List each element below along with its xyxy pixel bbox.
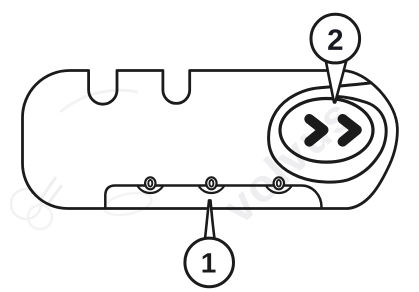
watermark overlay bbox=[11, 88, 363, 234]
dial 1 value 0 bbox=[148, 180, 152, 187]
oval button bbox=[280, 99, 373, 163]
chevron right bbox=[343, 119, 357, 142]
dial 3 value 0 bbox=[277, 180, 281, 187]
svg-text:2: 2 bbox=[327, 24, 343, 57]
callout 1 tail bbox=[205, 200, 215, 240]
dial panel bbox=[105, 186, 321, 209]
svg-text:1: 1 bbox=[201, 247, 217, 278]
dial 3 wheel bbox=[274, 177, 284, 189]
ring swoosh around button bbox=[269, 83, 387, 182]
lock body outline bbox=[23, 71, 398, 209]
callout 2 tail bbox=[326, 60, 347, 102]
dial 1 wheel bbox=[145, 177, 155, 189]
dial 2 bowl bbox=[198, 186, 224, 194]
dial 2 value 0 bbox=[209, 180, 213, 187]
chevron left bbox=[309, 119, 323, 142]
callout 2 circle bbox=[311, 14, 360, 63]
dial 3 bowl bbox=[266, 186, 292, 194]
dial 2 wheel bbox=[206, 177, 216, 189]
callout 1 circle bbox=[185, 238, 234, 287]
dial 1 bowl bbox=[137, 186, 163, 194]
